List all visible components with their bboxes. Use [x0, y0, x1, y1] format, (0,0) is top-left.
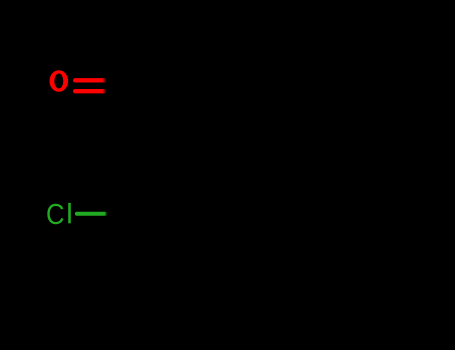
svg-text:C: C	[46, 199, 65, 231]
double bond C=O upper line	[73, 78, 107, 82]
double bond C=O lower line	[73, 89, 107, 93]
atom label O (aldehyde oxygen): bold ring	[50, 70, 69, 92]
single bond C-Cl	[75, 212, 108, 216]
atom label Cl letter l	[68, 203, 71, 223]
